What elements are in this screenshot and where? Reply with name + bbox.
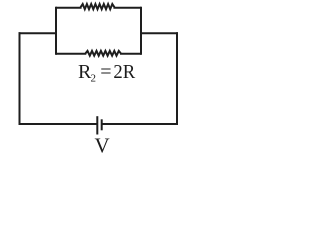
svg-text:2: 2 [91, 72, 97, 84]
svg-text:2R: 2R [113, 61, 135, 83]
resistor R2 = 2R (bottom branch) with lead wires [56, 51, 141, 56]
svg-text:V: V [95, 134, 110, 156]
wire: bottom left segment to battery [19, 123, 97, 125]
wire: box left side [55, 7, 57, 55]
wire: box right side [140, 7, 142, 55]
svg-text:=: = [100, 61, 111, 83]
wire: bottom right segment from battery [102, 123, 178, 125]
battery V: short plate (right) [101, 119, 103, 130]
wire: outer right vertical [176, 32, 178, 125]
wire: outer left vertical [19, 32, 21, 125]
resistor R1 (top branch) with lead wires [56, 4, 141, 9]
battery V: long plate (left) [96, 116, 98, 134]
wire: left connecting wire from node to box [19, 32, 57, 34]
wire: right connecting wire from box to node [141, 32, 178, 34]
